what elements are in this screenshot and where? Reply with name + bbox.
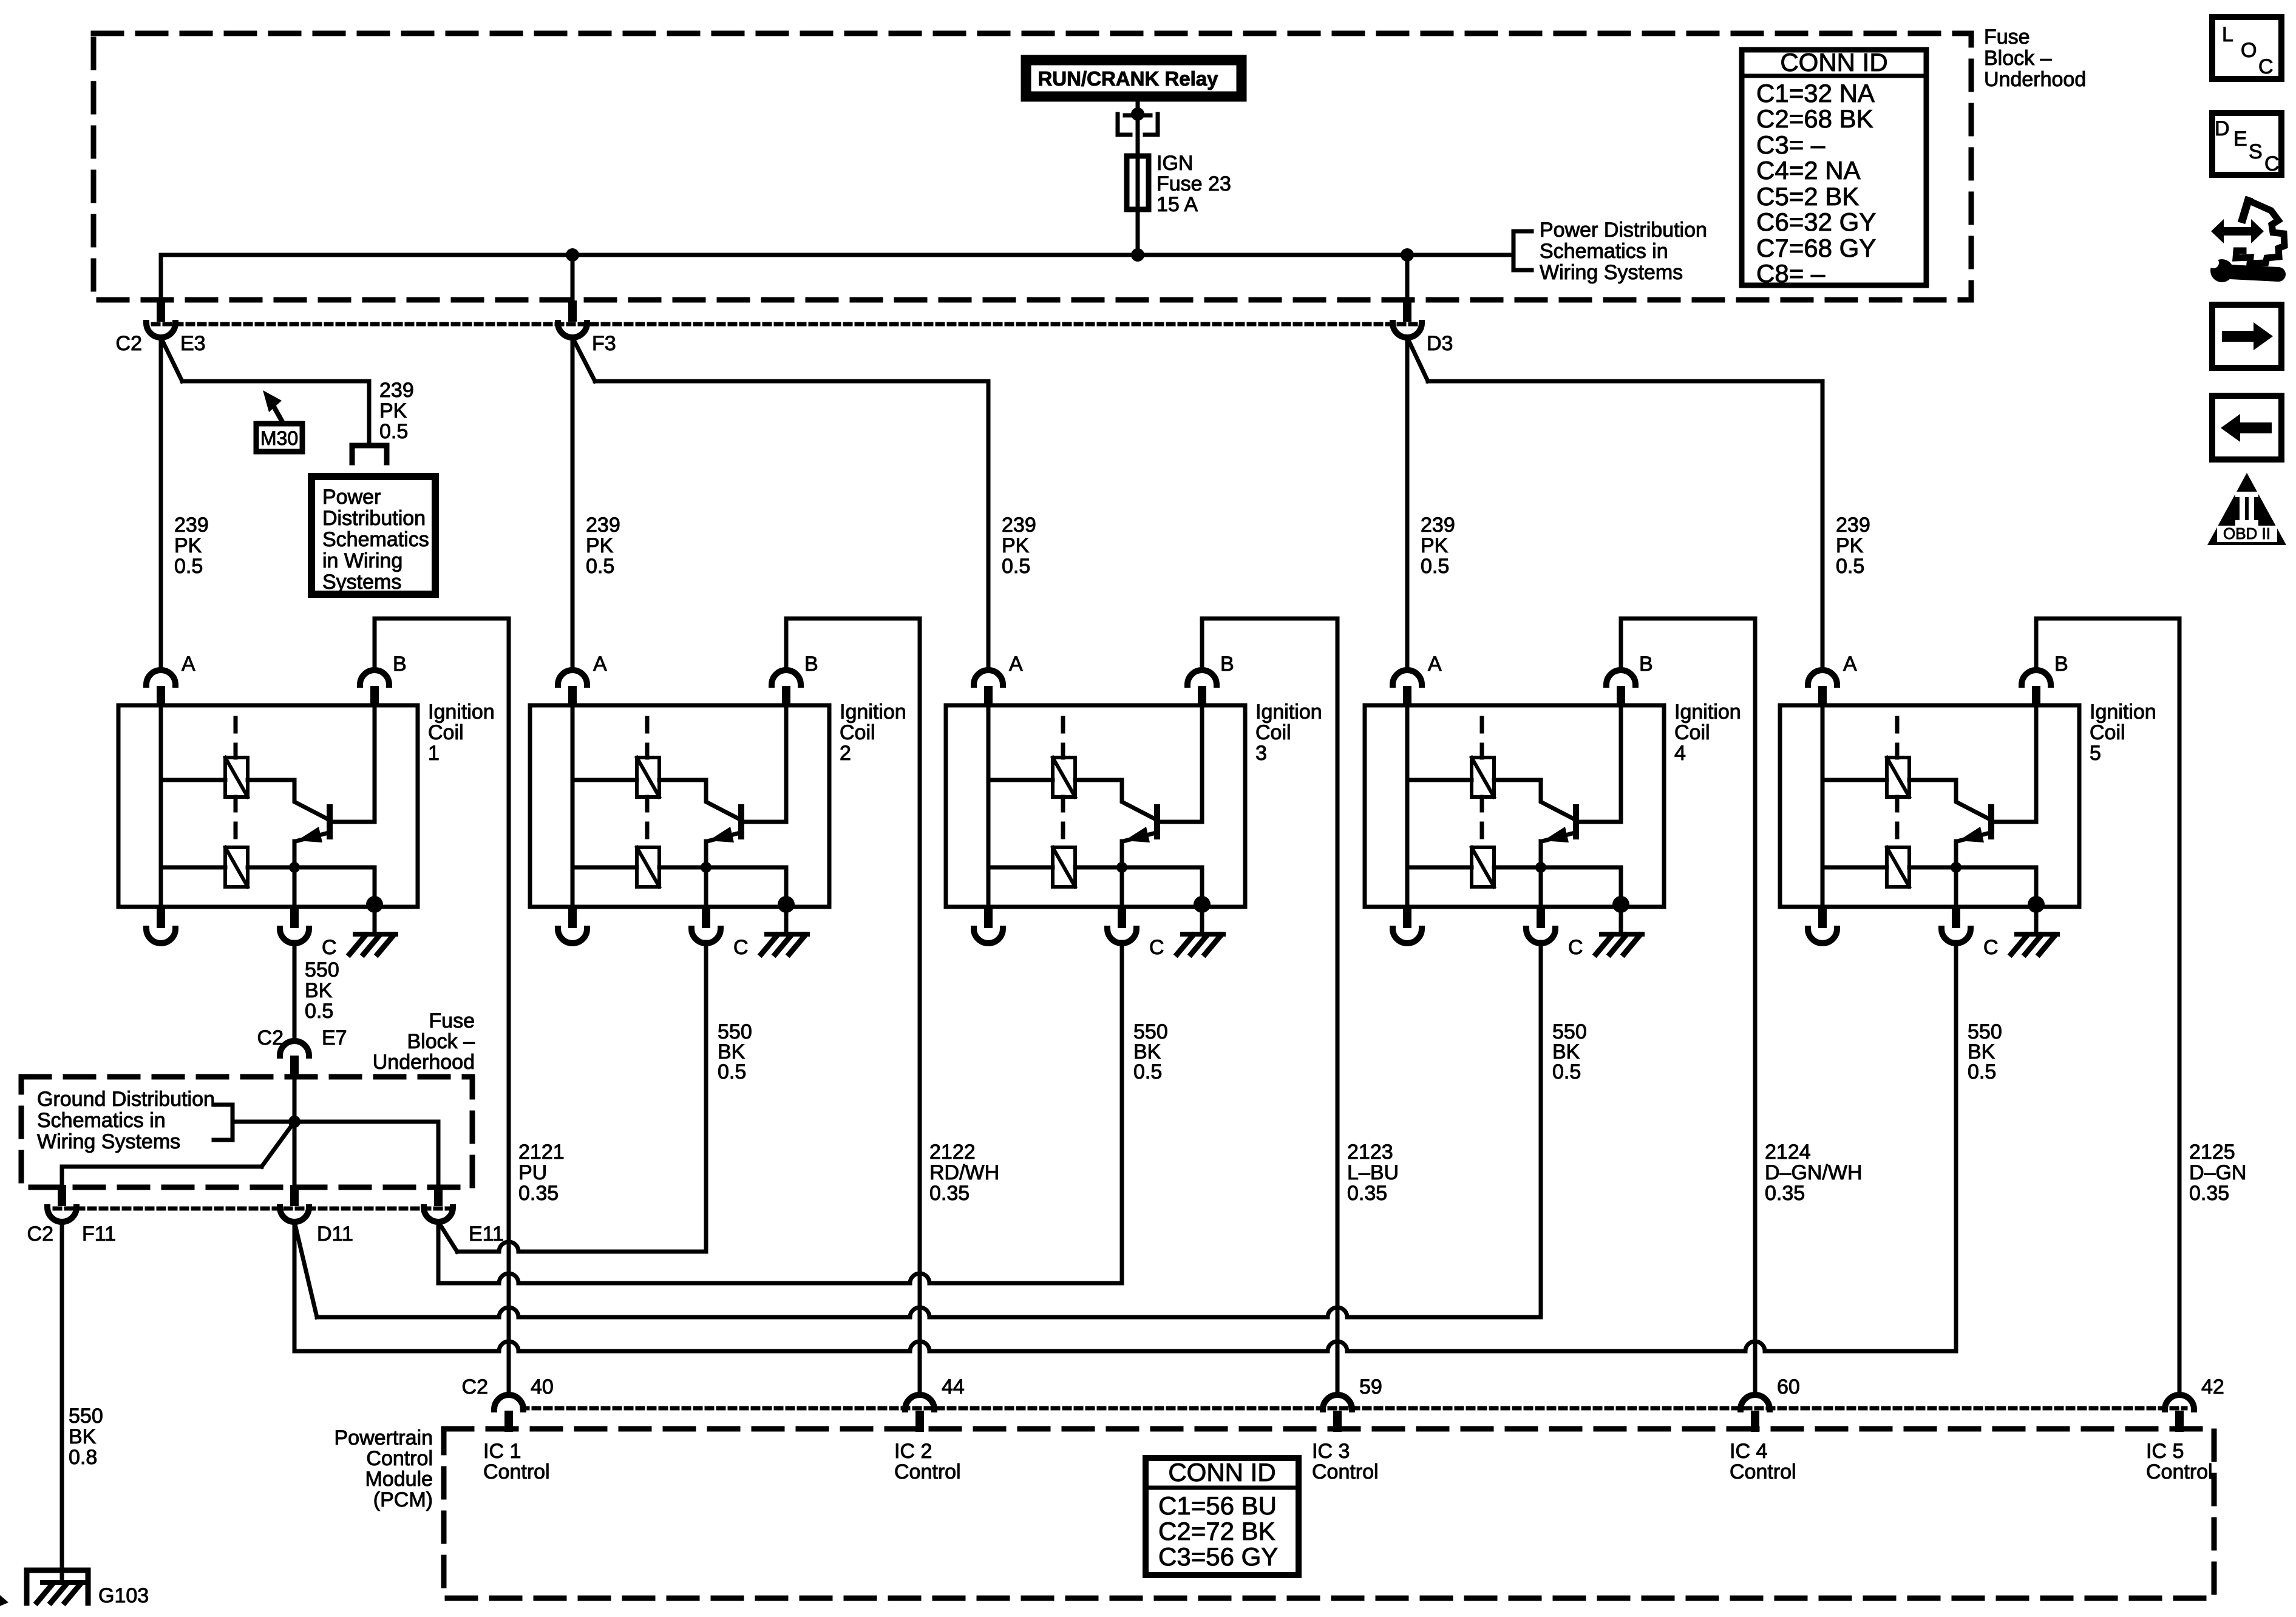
svg-text:0.35: 0.35 (929, 1182, 970, 1205)
svg-text:IC 5: IC 5 (2146, 1440, 2184, 1463)
svg-text:CONN ID: CONN ID (1168, 1458, 1275, 1486)
svg-text:Power Distribution: Power Distribution (1540, 219, 1707, 242)
svg-text:Schematics in: Schematics in (37, 1109, 166, 1132)
svg-text:2122: 2122 (929, 1141, 976, 1164)
svg-text:C7=68 GY: C7=68 GY (1756, 234, 1876, 262)
svg-text:IGN: IGN (1156, 152, 1193, 175)
svg-text:Ignition: Ignition (1674, 700, 1741, 724)
svg-text:4: 4 (1674, 742, 1686, 765)
svg-text:550: 550 (69, 1405, 103, 1428)
svg-text:A: A (1843, 653, 1857, 676)
svg-text:Fuse: Fuse (1984, 25, 2030, 49)
svg-text:0.5: 0.5 (718, 1060, 746, 1083)
wire E7 to D11 (293, 1077, 297, 1184)
svg-text:A: A (1428, 653, 1442, 676)
svg-text:239: 239 (1002, 514, 1036, 537)
svg-text:Ground Distribution: Ground Distribution (37, 1088, 215, 1111)
wire bus down to D3 (1405, 255, 1410, 300)
svg-text:239: 239 (379, 379, 414, 402)
svg-text:Distribution: Distribution (322, 507, 426, 530)
transistor Q5 base wire to pin B (1993, 820, 2036, 824)
svg-text:Coil: Coil (2090, 721, 2125, 744)
svg-text:0.35: 0.35 (1765, 1182, 1805, 1205)
svg-text:Underhood: Underhood (1984, 68, 2086, 91)
connector pin A coil 3 (984, 686, 993, 707)
coil 1 secondary winding W2 (225, 847, 248, 887)
svg-text:Fuse 23: Fuse 23 (1156, 172, 1231, 195)
coil 4 core dashed link (1480, 718, 1484, 758)
transistor Q3 bar (1154, 807, 1160, 836)
ignition coil 3 box (946, 705, 1245, 907)
coil 1 core dashed link (234, 718, 238, 758)
svg-text:0.35: 0.35 (1347, 1182, 1387, 1205)
transistor Q5 emitter (1957, 833, 1990, 841)
svg-text:C2: C2 (27, 1222, 53, 1246)
connector C2 F11 (58, 1185, 66, 1206)
wire coil 5 primary to transistor collector (1909, 780, 1990, 819)
svg-text:0.5: 0.5 (586, 555, 614, 578)
relay pin junction dot (1131, 107, 1144, 121)
wire ignition feed coil 4 239 PK (1405, 337, 1410, 668)
svg-text:0.5: 0.5 (174, 555, 203, 578)
svg-text:0.5: 0.5 (1552, 1060, 1581, 1083)
connector PCM pin 59 (1333, 1411, 1342, 1432)
wire ground bus L1 to coil 2 (457, 1242, 706, 1252)
wire coil 5 secondary row (1822, 866, 1887, 870)
svg-text:0.5: 0.5 (305, 1000, 333, 1023)
wire coil 1 to ground (373, 907, 377, 934)
svg-text:Ignition: Ignition (840, 700, 906, 724)
wire E11 down to L2 (436, 1222, 441, 1283)
connector pin C coil 2 (702, 907, 710, 928)
connector pin C coil 3 (1118, 907, 1126, 928)
svg-text:S: S (2249, 140, 2263, 163)
junction dot bus to F3 (566, 248, 579, 262)
svg-text:Wiring Systems: Wiring Systems (1540, 261, 1683, 284)
coil 3 primary winding W1 (1053, 758, 1075, 797)
svg-text:Module: Module (365, 1468, 433, 1491)
svg-text:F11: F11 (82, 1222, 116, 1246)
connector pin A coil 2 (568, 686, 577, 707)
wire coil 2 ground 550 BK (704, 942, 708, 1252)
wire IC control loop coil 3 (1202, 619, 1337, 1394)
svg-text:D–GN: D–GN (2189, 1161, 2246, 1184)
connector PCM pin 60 (1751, 1411, 1759, 1432)
svg-text:239: 239 (1836, 514, 1870, 537)
connector pin C coil 4 (1537, 907, 1545, 928)
wire coil 3 primary to transistor collector (1075, 780, 1156, 819)
bi-directional tool icon (2211, 219, 2264, 243)
wire D11 diagonal to L3 (294, 1222, 317, 1317)
svg-text:C6=32 GY: C6=32 GY (1756, 208, 1876, 236)
transistor Q2 emitter (707, 833, 740, 841)
svg-text:Control: Control (483, 1460, 550, 1483)
transistor Q1 emitter (296, 833, 328, 841)
connector line dotted PCM pins (522, 1406, 2186, 1411)
wire IC control loop coil 4 (1621, 619, 1755, 1394)
coil 5 primary winding W1 (1887, 758, 1909, 797)
junction node emitter coil 1 (289, 862, 300, 873)
svg-text:Systems: Systems (322, 571, 401, 594)
connector PCM pin 40 (504, 1411, 513, 1432)
svg-text:0.5: 0.5 (1836, 555, 1864, 578)
coil 2 secondary winding W2 (637, 847, 659, 887)
scan artifact bottom left (0, 1595, 8, 1606)
wire ignition feed coil 3 239 PK (987, 381, 991, 668)
wire coil 4 ground 550 BK (1539, 942, 1543, 1317)
svg-text:M30: M30 (260, 427, 298, 449)
junction dot fuse to bus (1131, 248, 1144, 262)
svg-text:0.5: 0.5 (1968, 1060, 1996, 1083)
svg-text:A: A (593, 653, 607, 676)
connector secondary output coil 4 (1403, 907, 1411, 928)
svg-text:BK: BK (305, 979, 333, 1002)
svg-text:D11: D11 (317, 1222, 353, 1246)
fuse block underhood dashed outline (93, 33, 1971, 300)
coil 1 primary winding W1 (225, 758, 248, 797)
svg-text:239: 239 (174, 514, 209, 537)
coil 5 secondary winding W2 (1887, 847, 1909, 887)
junction dot coil 5 internal ground (2028, 896, 2045, 913)
svg-text:E: E (2233, 127, 2247, 151)
coil 3 secondary winding W2 (1053, 847, 1075, 887)
svg-text:D: D (2215, 117, 2230, 140)
svg-text:Control: Control (1312, 1460, 1379, 1483)
wire ground bus L4 to coil 5 (294, 1341, 1956, 1351)
svg-text:0.35: 0.35 (518, 1182, 559, 1205)
splice cup to power distribution (352, 446, 387, 463)
wire coil 4 primary to transistor collector (1494, 780, 1575, 819)
wire F3 branch diagonal (572, 337, 595, 381)
svg-text:O: O (2241, 39, 2257, 62)
svg-text:C2: C2 (257, 1026, 284, 1049)
svg-text:C: C (1568, 936, 1583, 959)
svg-text:0.35: 0.35 (2189, 1182, 2229, 1205)
svg-text:239: 239 (586, 514, 620, 537)
svg-text:0.5: 0.5 (1421, 555, 1449, 578)
connector secondary output coil 1 (157, 907, 165, 928)
svg-text:IC 1: IC 1 (483, 1440, 521, 1463)
wire ground bus L2 to coil 3 (438, 1273, 1122, 1283)
svg-text:C: C (322, 936, 337, 959)
svg-text:C: C (733, 936, 749, 959)
fuse holder clip (1125, 114, 1150, 118)
svg-text:60: 60 (1777, 1375, 1800, 1398)
transistor Q4 base wire to pin B (1578, 820, 1621, 824)
junction dot coil 2 internal ground (778, 896, 795, 913)
svg-text:E7: E7 (322, 1026, 347, 1049)
ground distribution reference bracket (214, 1105, 233, 1140)
ground chassis coil 4 (1601, 932, 1642, 937)
wire coil 2 to ground (784, 907, 789, 934)
connector pin C coil 1 (290, 907, 299, 928)
connector pin B coil 4 (1617, 686, 1625, 707)
junction node emitter coil 3 (1116, 862, 1127, 873)
PCM dashed outline (444, 1429, 2214, 1598)
wire coil 1 C to connector (293, 867, 297, 907)
ground chassis coil 2 (767, 932, 807, 937)
svg-text:0.5: 0.5 (379, 420, 408, 443)
connector E11 (434, 1185, 443, 1206)
DESC icon box (2212, 113, 2281, 175)
fuse block ground dashed outline (21, 1077, 472, 1187)
svg-text:Powertrain: Powertrain (334, 1426, 433, 1449)
wire ignition feed coil 5 239 PK (1821, 381, 1825, 668)
svg-text:PK: PK (379, 399, 407, 422)
connector secondary output coil 2 (568, 907, 577, 928)
ignition coil 1 box (118, 705, 418, 907)
power distribution reference bracket (1513, 231, 1532, 270)
svg-text:PK: PK (1421, 534, 1449, 557)
wire coil 3 A to windings (987, 705, 991, 907)
junction dot coil 3 internal ground (1194, 896, 1211, 913)
wire bus down to F3 (571, 255, 575, 300)
wire coil 5 ground 550 BK (1954, 942, 1958, 1351)
wire ground distribution bus (233, 1120, 438, 1124)
svg-text:A: A (182, 653, 195, 676)
svg-text:IC 2: IC 2 (894, 1440, 932, 1463)
svg-text:Block –: Block – (407, 1030, 475, 1053)
svg-text:2125: 2125 (2189, 1141, 2235, 1164)
junction dot coil 1 internal ground (366, 896, 383, 913)
svg-text:Fuse: Fuse (429, 1009, 475, 1032)
wire coil 3 secondary row (988, 866, 1053, 870)
svg-text:Block –: Block – (1984, 47, 2052, 70)
connector PCM pin 44 (915, 1411, 924, 1432)
svg-text:Control: Control (1730, 1460, 1796, 1483)
svg-text:44: 44 (942, 1375, 965, 1398)
power distribution schematics box (311, 476, 435, 594)
wire coil 1 ground 550 BK (293, 942, 297, 1040)
ignition feed bus wire (161, 253, 1511, 257)
svg-text:Wiring Systems: Wiring Systems (37, 1130, 180, 1153)
wire ground bus L3 to coil 4 (317, 1307, 1541, 1317)
transistor Q3 base wire to pin B (1159, 820, 1202, 824)
coil 2 primary winding W1 (637, 758, 659, 797)
LOC icon box (2212, 17, 2281, 79)
wire relay to fuse (1136, 101, 1140, 255)
svg-text:OBD II: OBD II (2223, 524, 2271, 543)
svg-text:C2: C2 (462, 1375, 488, 1398)
wire coil 5 A to windings (1821, 705, 1825, 907)
junction dot ground bus (288, 1116, 301, 1128)
forward arrow icon box (2212, 305, 2281, 368)
transistor Q2 base wire to pin B (743, 820, 786, 824)
svg-text:B: B (1220, 653, 1234, 676)
connector D11 (290, 1185, 299, 1206)
svg-text:2123: 2123 (1347, 1141, 1393, 1164)
OBD II triangle icon (2207, 473, 2286, 545)
svg-text:C5=2 BK: C5=2 BK (1756, 182, 1859, 211)
svg-text:B: B (2054, 653, 2068, 676)
svg-text:D–GN/WH: D–GN/WH (1765, 1161, 1863, 1184)
svg-text:Ignition: Ignition (2090, 700, 2156, 724)
connector pin C coil 5 (1952, 907, 1960, 928)
svg-text:C2=68 BK: C2=68 BK (1756, 104, 1873, 133)
wire coil 4 to ground (1619, 907, 1623, 934)
svg-text:C4=2 NA: C4=2 NA (1756, 156, 1861, 185)
svg-text:550: 550 (305, 958, 339, 981)
fuse IGN Fuse 23 15A symbol (1127, 156, 1149, 209)
svg-text:C8= –: C8= – (1756, 259, 1826, 288)
coil 2 core dashed link (645, 718, 650, 758)
connector F3 (568, 300, 577, 322)
svg-text:239: 239 (1421, 514, 1455, 537)
junction node emitter coil 2 (701, 862, 712, 873)
svg-text:0.8: 0.8 (69, 1446, 97, 1469)
svg-text:B: B (804, 653, 818, 676)
connector pin A coil 4 (1403, 686, 1411, 707)
junction dot bus to D3 (1401, 248, 1414, 262)
svg-text:RD/WH: RD/WH (929, 1161, 999, 1184)
svg-text:B: B (393, 653, 407, 676)
wire coil 4 secondary row (1407, 866, 1472, 870)
svg-text:CONN ID: CONN ID (1780, 48, 1887, 76)
svg-text:59: 59 (1359, 1375, 1382, 1398)
transistor Q1 bar (327, 807, 333, 836)
svg-text:40: 40 (531, 1375, 554, 1398)
svg-text:IC 3: IC 3 (1312, 1440, 1350, 1463)
svg-text:F3: F3 (592, 332, 616, 355)
CONN ID table fuse block (1742, 50, 1926, 285)
svg-text:(PCM): (PCM) (373, 1488, 433, 1511)
coil 5 core dashed link (1895, 718, 1900, 758)
connector line dotted fuse block outputs (153, 322, 1421, 327)
connector secondary output coil 3 (984, 907, 993, 928)
svg-text:15 A: 15 A (1156, 193, 1198, 216)
svg-text:G103: G103 (98, 1584, 149, 1607)
svg-text:C2: C2 (116, 332, 142, 355)
svg-text:2121: 2121 (518, 1141, 565, 1164)
svg-text:L–BU: L–BU (1347, 1161, 1399, 1184)
svg-text:Control: Control (2146, 1460, 2213, 1483)
wire coil 1 A to windings (159, 705, 163, 907)
connector pin B coil 5 (2032, 686, 2040, 707)
svg-text:Coil: Coil (840, 721, 875, 744)
back arrow icon box (2212, 396, 2281, 459)
wire ignition feed coil 1 239 PK (159, 337, 163, 668)
wire coil 5 to ground (2034, 907, 2039, 934)
svg-text:in Wiring: in Wiring (322, 549, 402, 572)
transistor Q2 bar (738, 807, 744, 836)
wire coil 1 primary to transistor collector (248, 780, 328, 819)
junction node emitter coil 5 (1951, 862, 1961, 873)
svg-text:E3: E3 (180, 332, 206, 355)
ground chassis coil 5 (2017, 932, 2057, 937)
wire coil 5 C to connector (1954, 867, 1958, 907)
wire E3 branch horizontal (182, 379, 369, 384)
wire ground bus to E11 (436, 1122, 441, 1184)
connector pin A coil 5 (1818, 686, 1827, 707)
svg-text:Power: Power (322, 486, 381, 509)
wire coil 1 secondary row (161, 866, 225, 870)
wire ground bus diagonal to F11 (262, 1122, 294, 1167)
svg-text:PK: PK (1002, 534, 1030, 557)
svg-text:C3= –: C3= – (1756, 131, 1826, 159)
wire F11 to G103 550 BK 0.8 (60, 1222, 64, 1582)
connector C2 E7 (290, 1057, 299, 1078)
ground chassis coil 3 (1183, 932, 1223, 937)
wire coil 3 ground 550 BK (1120, 942, 1124, 1283)
ground G103 frame (27, 1570, 88, 1603)
junction dot coil 4 internal ground (1612, 896, 1629, 913)
svg-text:C1=32 NA: C1=32 NA (1756, 79, 1875, 107)
transistor Q3 emitter (1123, 833, 1156, 841)
wire coil 2 A to windings (571, 705, 575, 907)
svg-text:PK: PK (586, 534, 614, 557)
wire coil 3 to ground (1200, 907, 1204, 934)
svg-text:3: 3 (1255, 742, 1267, 765)
svg-text:B: B (1639, 653, 1653, 676)
svg-text:C1=56 BU: C1=56 BU (1158, 1491, 1277, 1520)
connector pin B coil 1 (370, 686, 379, 707)
svg-text:L: L (2222, 23, 2233, 46)
wire bus down to C2/E3 (159, 255, 163, 300)
M30 splice callout box (256, 424, 302, 452)
wire D11 down to L4 (293, 1222, 297, 1351)
wire IC control loop coil 2 (786, 619, 920, 1394)
wire coil 3 C to connector (1120, 867, 1124, 907)
svg-text:PK: PK (174, 534, 202, 557)
svg-text:Ignition: Ignition (428, 700, 495, 724)
ground G103 chassis symbol (42, 1580, 83, 1585)
M30 arrow (273, 405, 282, 421)
svg-text:Ignition: Ignition (1255, 700, 1322, 724)
svg-text:IC 4: IC 4 (1730, 1440, 1767, 1463)
svg-text:Coil: Coil (1674, 721, 1710, 744)
svg-text:C: C (2264, 152, 2280, 175)
connector C2 E3 (157, 300, 165, 322)
connector PCM pin 42 (2175, 1411, 2184, 1432)
ignition coil 5 box (1780, 705, 2079, 907)
svg-text:E11: E11 (469, 1222, 504, 1246)
svg-text:2124: 2124 (1765, 1141, 1811, 1164)
wire coil 2 primary to transistor collector (659, 780, 740, 819)
wire E3 branch diagonal (161, 337, 182, 381)
coil 3 core dashed link (1061, 718, 1065, 758)
wire D3 branch horizontal to coil 5 (1428, 379, 1822, 384)
connector pin B coil 2 (782, 686, 790, 707)
svg-text:D3: D3 (1427, 332, 1453, 355)
svg-text:5: 5 (2090, 742, 2101, 765)
ignition coil 2 box (530, 705, 829, 907)
wire ignition feed coil 2 239 PK (571, 337, 575, 668)
wire IC control loop coil 5 (2036, 619, 2179, 1394)
svg-text:Coil: Coil (428, 721, 464, 744)
svg-text:A: A (1009, 653, 1023, 676)
svg-text:1: 1 (428, 742, 440, 765)
transistor Q4 bar (1573, 807, 1579, 836)
svg-text:C: C (1149, 936, 1164, 959)
svg-text:C: C (1983, 936, 1999, 959)
svg-text:BK: BK (69, 1425, 97, 1448)
svg-text:C2=72 BK: C2=72 BK (1158, 1517, 1275, 1545)
wire IC control loop coil 1 (375, 619, 509, 1394)
svg-text:Control: Control (894, 1460, 961, 1483)
wire coil 2 C to connector (704, 867, 708, 907)
svg-text:Schematics: Schematics (322, 528, 429, 551)
connector line dotted fuse block grounds (55, 1207, 449, 1211)
svg-text:Control: Control (366, 1447, 433, 1470)
wire F3 branch horizontal to coil 3 (595, 379, 988, 384)
ignition coil 4 box (1365, 705, 1664, 907)
svg-text:RUN/CRANK Relay: RUN/CRANK Relay (1038, 67, 1218, 90)
wrench icon (2210, 259, 2233, 282)
wire D3 branch diagonal (1407, 337, 1428, 381)
svg-text:PK: PK (1836, 534, 1864, 557)
svg-text:0.5: 0.5 (1133, 1060, 1162, 1083)
svg-text:Underhood: Underhood (373, 1051, 475, 1074)
